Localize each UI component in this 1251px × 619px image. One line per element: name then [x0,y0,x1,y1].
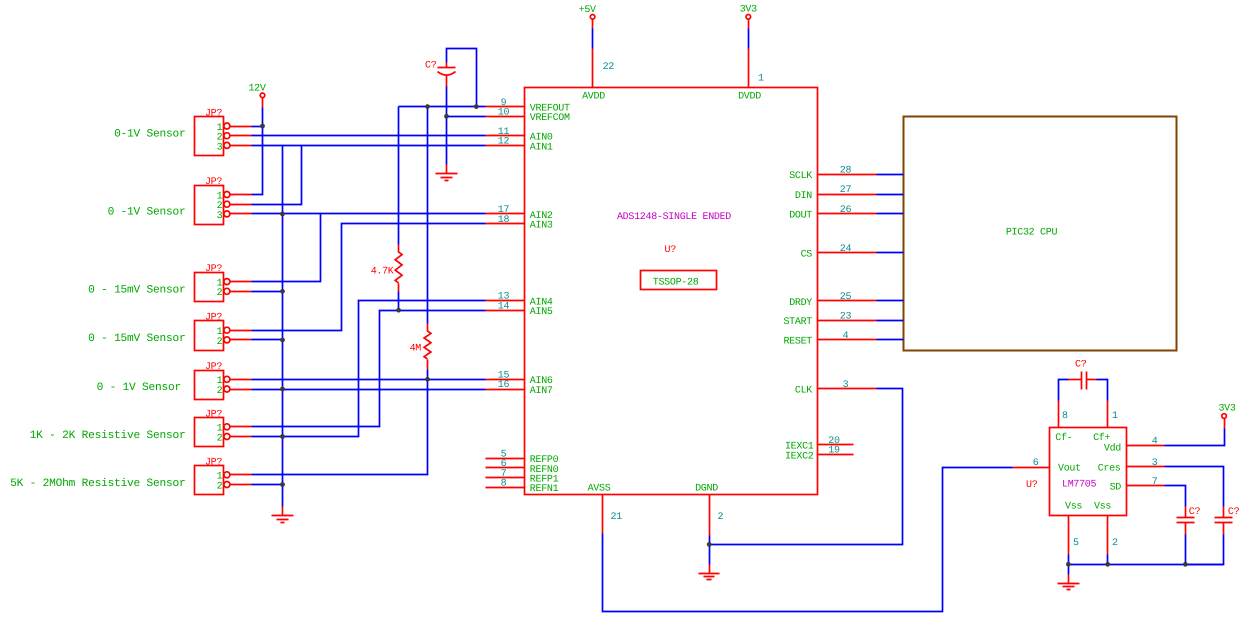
svg-text:2: 2 [217,288,223,299]
svg-text:U?: U? [1026,480,1038,491]
svg-text:25: 25 [840,292,852,303]
pin 12 AIN1 [486,137,553,154]
svg-text:1: 1 [758,74,764,85]
wire VREFOUT to 4M top [427,107,429,324]
svg-text:U?: U? [665,245,677,256]
pin 28 SCLK [789,166,876,183]
svg-text:C?: C? [1228,507,1240,518]
power +5V [579,5,596,19]
wire AIN1 [252,145,486,147]
pin 19 IEXC2 [785,446,854,463]
svg-text:Cf-: Cf- [1055,432,1072,444]
pin 17 AIN2 [486,205,553,222]
svg-text:1K - 2K Resistive Sensor: 1K - 2K Resistive Sensor [30,429,186,442]
svg-text:DGND: DGND [695,483,718,494]
pin 23 START [783,312,876,329]
svg-text:2: 2 [217,481,223,492]
pin 15 AIN6 [486,371,553,388]
pin 6 Vout [1013,458,1081,475]
pin 7 REFP1 [486,469,559,486]
label C? [1228,507,1240,518]
connector JP? 2 (0 -1V Sensor) [195,177,252,225]
svg-text:23: 23 [840,312,852,323]
connector JP? 5 (0 - 1V Sensor) [195,362,252,400]
junction [280,338,285,343]
svg-text:19: 19 [828,446,840,457]
wire 4.7K bottom [398,292,400,311]
label 0 - 1V Sensor [97,382,181,394]
svg-text:2: 2 [217,433,223,444]
svg-text:16: 16 [498,380,510,391]
regulator U? LM7705 body [1050,428,1127,516]
svg-text:7: 7 [1152,477,1158,488]
label 0 - 15mV Sensor [88,333,185,345]
svg-text:JP?: JP? [205,457,222,468]
reference U? [665,245,677,256]
pin 2 Vss [1094,502,1118,555]
svg-text:Cres: Cres [1098,464,1121,475]
svg-text:0 -1V Sensor: 0 -1V Sensor [108,206,186,218]
svg-text:12: 12 [498,137,510,148]
svg-text:3: 3 [217,211,223,222]
label 1K - 2K Resistive Sensor [30,429,186,442]
svg-text:10: 10 [498,108,510,119]
pin 27 DIN [795,185,877,202]
wire JP7 pin2 to ground rail [252,484,283,486]
pin 10 VREFCOM [486,108,571,125]
power 12V [248,83,265,97]
wire SD to C? [1165,486,1186,507]
svg-text:JP?: JP? [205,109,222,120]
wire AIN5 from JP6 pin1 [252,311,486,427]
svg-text:VREFCOM: VREFCOM [530,113,570,124]
junction [260,124,265,129]
wire AIN7 [252,389,486,391]
pin 7 SD [1110,477,1165,494]
ground (DGND) [699,565,720,580]
capacitor C? (on Cres net) [1215,507,1233,535]
junction [1105,562,1110,567]
pin 21 AVSS [588,483,623,533]
pin 5 REFP0 [486,449,559,466]
pin 2 DGND [695,483,723,535]
wire START [877,320,904,322]
pin 6 REFN0 [486,459,559,476]
svg-text:AIN1: AIN1 [530,142,553,153]
junction [444,114,449,119]
svg-text:4: 4 [1152,437,1158,448]
power 3V3 (top) [740,5,757,20]
svg-text:AIN3: AIN3 [530,221,553,232]
label 0-1V Sensor [114,128,185,140]
svg-text:6: 6 [1033,458,1039,469]
block PIC32 CPU [904,117,1177,351]
wire AIN2 [252,213,486,215]
wire 3V3 to Vdd [1165,429,1225,446]
wire JP3 pin1 [252,214,321,282]
ground (VREFCOM filter) [436,165,458,181]
pin 11 AIN0 [486,127,553,144]
capacitor C? (polarized, near VREF) [438,63,456,87]
svg-text:JP?: JP? [205,409,222,420]
pin 16 AIN7 [486,380,553,397]
svg-text:DOUT: DOUT [789,211,812,222]
wire CLK to DGND [710,389,903,545]
svg-text:CS: CS [801,250,813,261]
pin 14 AIN5 [486,301,553,318]
wire VREFOUT to 4.7K top [398,107,400,245]
junction [396,308,401,313]
label 0 -1V Sensor [108,206,186,218]
pin 3 CLK [795,380,877,397]
wire CS [877,252,904,254]
svg-text:IEXC2: IEXC2 [785,451,814,462]
junction [474,104,479,109]
wire DGND down [709,536,711,565]
wire JP1 pin1 to 12V [252,126,263,128]
wire RESET [877,339,904,341]
junction [280,212,285,217]
svg-text:3: 3 [217,142,223,153]
svg-text:C?: C? [1075,360,1087,371]
svg-text:2: 2 [217,337,223,348]
junction [280,482,285,487]
wire AVSS to Vout [603,468,1013,612]
svg-text:0 - 15mV Sensor: 0 - 15mV Sensor [88,333,185,345]
capacitor C? (on SD net) [1177,507,1195,535]
label ADS1248-SINGLE ENDED [617,212,731,223]
wire AIN6 [252,379,486,381]
pin 8 REFN1 [486,478,559,495]
wire JP2 pin2 to AIN1 [252,146,302,205]
svg-text:JP?: JP? [205,264,222,275]
pin 26 DOUT [789,205,876,222]
svg-text:8: 8 [1062,411,1068,422]
junction [425,104,430,109]
svg-text:CLK: CLK [795,386,812,397]
pin 18 AIN3 [486,215,553,232]
svg-text:JP?: JP? [205,362,222,373]
svg-text:22: 22 [603,62,615,73]
svg-text:4.7K: 4.7K [371,267,394,278]
wire Cres C? bottom to rail [1186,535,1224,565]
wire DOUT [877,213,904,215]
svg-text:0 - 15mV Sensor: 0 - 15mV Sensor [88,285,185,297]
wire Cres to C? [1165,467,1224,507]
junction [280,434,285,439]
label PIC32 CPU [1006,227,1058,238]
capacitor C? (flying cap on LM7705) [1069,372,1097,390]
junction [1066,562,1071,567]
svg-text:Vout: Vout [1058,464,1081,475]
svg-text:3: 3 [1152,458,1158,469]
svg-text:AVDD: AVDD [582,91,605,102]
svg-text:2: 2 [718,512,724,523]
label LM7705 [1062,479,1097,490]
svg-text:AIN5: AIN5 [530,307,553,318]
resistor R? 4M [424,324,431,370]
junction [280,387,285,392]
svg-text:2: 2 [1112,538,1118,549]
wire 3V3 to DVDD [748,29,750,49]
svg-text:28: 28 [840,166,852,177]
svg-text:24: 24 [840,244,852,255]
label 4M [410,344,422,355]
svg-text:3: 3 [843,380,849,391]
wire Cf+ loop [1097,380,1108,401]
wire AIN4 from JP6 pin2 [252,301,486,437]
pin 3 Cres [1098,458,1165,475]
svg-text:0-1V Sensor: 0-1V Sensor [114,128,185,140]
junction [425,377,430,382]
wire JP4 pin2 to ground rail [252,339,283,341]
label C? [425,61,437,72]
wire Vss ground rail [1069,555,1224,575]
svg-text:C?: C? [425,61,437,72]
resistor R? 4.7K [395,245,402,292]
svg-text:2: 2 [217,386,223,397]
svg-text:14: 14 [498,301,510,312]
label C? [1075,360,1087,371]
svg-text:3V3: 3V3 [740,5,757,16]
svg-text:ADS1248-SINGLE ENDED: ADS1248-SINGLE ENDED [617,212,731,223]
svg-text:DRDY: DRDY [789,298,812,309]
label 4.7K [371,267,394,278]
svg-text:SD: SD [1110,483,1122,494]
pin 24 CS [801,244,877,261]
svg-text:START: START [783,317,812,328]
svg-text:JP?: JP? [205,313,222,324]
wire +5V to AVDD [592,29,594,49]
svg-text:27: 27 [840,185,852,196]
wire Cf- loop [1059,380,1069,401]
wire SD C? bottom to rail [1185,535,1187,565]
pin 22 AVDD [582,49,614,103]
svg-text:8: 8 [501,478,507,489]
connector JP? 7 (5K - 2MOhm Resistive Sensor) [195,457,252,494]
svg-text:AVSS: AVSS [588,483,611,494]
svg-text:TSSOP-28: TSSOP-28 [653,278,699,289]
wire AIN3 from JP4 pin1 [252,224,486,331]
pin 13 AIN4 [486,292,553,309]
svg-text:4: 4 [843,331,849,342]
svg-text:PIC32 CPU: PIC32 CPU [1006,227,1058,238]
label 0 - 15mV Sensor [88,285,185,297]
connector JP? 3 (0 - 15mV Sensor) [195,264,252,301]
svg-text:Vss: Vss [1065,502,1082,513]
pin 25 DRDY [789,292,876,309]
ground (left sensor rail) [272,507,294,523]
pin 1 DVDD [738,49,764,103]
svg-text:0 - 1V Sensor: 0 - 1V Sensor [97,382,181,394]
op-amp U? ADS1248 body [525,88,818,495]
pin 9 VREFOUT [486,98,571,115]
svg-text:SCLK: SCLK [789,171,812,182]
svg-text:Vss: Vss [1094,502,1111,513]
svg-text:C?: C? [1189,507,1201,518]
pin 5 Vss [1065,502,1082,555]
svg-text:26: 26 [840,205,852,216]
connector JP? 1 (0-1V Sensor) [195,109,252,156]
svg-text:12V: 12V [248,83,265,94]
pin 20 IEXC1 [785,436,854,453]
connector JP? 6 (1K - 2K Resistive Sensor) [195,409,252,446]
ground (LM7705 Vss) [1058,575,1080,590]
svg-text:DIN: DIN [795,191,812,202]
svg-text:21: 21 [611,512,623,523]
svg-text:+5V: +5V [579,5,596,16]
label C? [1189,507,1201,518]
svg-text:AIN7: AIN7 [530,386,553,397]
svg-text:3V3: 3V3 [1218,403,1235,414]
label 5K - 2MOhm Resistive Sensor [10,477,185,490]
power 3V3 (bottom right) [1218,403,1235,418]
reference U? [1026,480,1038,491]
wire VREFOUT to C? top loop [447,49,477,107]
wire 4M bottom [427,370,429,380]
wire VREFCOM [447,116,486,118]
pin 4 RESET [783,331,876,348]
wire DIN [877,194,904,196]
wire AIN0 [252,135,486,137]
junction [280,289,285,294]
wire SCLK [877,174,904,176]
pin 1 Cf+ [1093,401,1118,445]
svg-text:RESET: RESET [783,337,812,348]
svg-text:4M: 4M [410,344,422,355]
svg-text:JP?: JP? [205,177,222,188]
pin 4 Vdd [1104,437,1165,455]
svg-text:5K - 2MOhm Resistive Sensor: 5K - 2MOhm Resistive Sensor [10,477,185,490]
wire DRDY [877,300,904,302]
svg-text:18: 18 [498,215,510,226]
wire JP7 pin1 to AIN6 [252,380,428,475]
pin 8 Cf- [1055,401,1072,445]
svg-text:1: 1 [1112,411,1118,422]
svg-text:REFN1: REFN1 [530,484,559,495]
svg-text:Cf+: Cf+ [1093,432,1110,444]
connector JP? 4 (0 - 15mV Sensor) [195,313,252,351]
wire 12V rail [252,108,263,195]
svg-text:5: 5 [1073,538,1079,549]
wire JP3 pin2 to ground rail [252,291,283,293]
footprint TSSOP-28 [641,271,717,290]
junction [1183,562,1188,567]
wire VREFOUT [399,106,486,108]
svg-text:LM7705: LM7705 [1062,479,1097,490]
junction [707,542,712,547]
wire C? bottom to ground [446,87,448,165]
svg-text:DVDD: DVDD [738,91,761,102]
svg-text:Vdd: Vdd [1104,443,1121,455]
wire ground rail (left) [282,146,284,507]
